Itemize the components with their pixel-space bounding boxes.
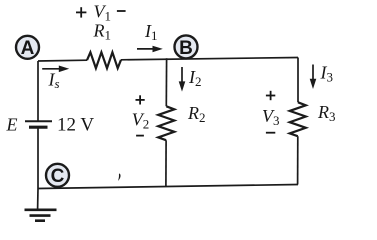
minus sign for V1 xyxy=(117,10,126,12)
current arrow I2 xyxy=(179,67,186,92)
svg-text:E: E xyxy=(6,115,18,135)
wire: left vertical from A corner down to battery xyxy=(37,61,39,121)
wire: bottom from C corner to right corner xyxy=(38,185,298,189)
svg-text:A: A xyxy=(21,38,35,59)
svg-text:C: C xyxy=(51,166,65,187)
wire: middle branch vertical from R2 down to bottom wire xyxy=(165,140,167,186)
plus sign for V2 xyxy=(136,95,145,104)
wire: right branch vertical from top corner down to R3 xyxy=(297,58,299,103)
current arrow Is xyxy=(42,66,69,73)
ground stem xyxy=(37,189,39,210)
battery source E (short thick plate) xyxy=(29,126,48,129)
wire: right branch vertical from R3 down to bottom wire xyxy=(297,136,299,184)
wire: left vertical from battery down to C corner xyxy=(37,127,39,188)
node B xyxy=(175,35,198,58)
wire: top left segment A corner to R1 xyxy=(38,59,87,62)
stray comma mark on bottom wire xyxy=(118,173,120,181)
resistor R2 xyxy=(158,106,174,140)
resistor R3 xyxy=(290,102,306,136)
minus sign for V3 xyxy=(266,132,275,134)
minus sign for V2 xyxy=(136,135,144,137)
ground bar 2 xyxy=(30,214,51,217)
current arrow I3 xyxy=(310,65,317,90)
ground bar 3 xyxy=(35,219,45,222)
wire: middle branch vertical from node B down to R2 xyxy=(165,58,167,106)
node A xyxy=(16,36,39,59)
plus sign for V3 xyxy=(266,91,275,100)
ground bar 1 xyxy=(25,209,57,212)
wire: top segment R1 to right corner through node B xyxy=(121,58,298,60)
node C xyxy=(46,164,69,187)
resistor R1 xyxy=(87,52,121,68)
current arrow I1 xyxy=(137,46,163,53)
battery source E (long plate) xyxy=(25,120,52,122)
svg-text:12 V: 12 V xyxy=(57,115,94,136)
svg-text:B: B xyxy=(179,38,193,59)
plus sign for V1 xyxy=(76,7,86,17)
